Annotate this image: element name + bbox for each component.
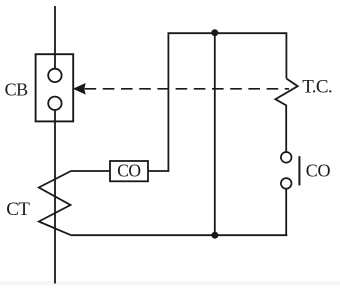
svg-text:CO: CO [117,161,140,181]
CO contact circle top [281,152,292,163]
wire top bus with corners [168,33,286,171]
arrowhead pointing at CB [73,83,86,95]
CB contact circle bottom [48,97,61,110]
wire contact to bottom bus [285,189,287,236]
CO contact circle bottom [281,178,292,189]
CB contact circle top [48,69,61,82]
scan artifact band [0,281,340,286]
dashed trip control line [85,88,289,90]
current transformer CT zigzag [39,171,110,235]
wire CO box to left-middle vertical [148,170,169,172]
svg-text:T.C.: T.C. [302,77,332,98]
trip coil T.C. zigzag [275,79,297,153]
circuit breaker CB box [36,54,74,121]
CO contact bar [298,156,300,185]
wire main left vertical bus upper [54,6,56,70]
relay CO box [110,161,148,181]
svg-text:CO: CO [306,161,331,181]
wire main left vertical bus lower [54,109,56,284]
junction dot bottom [211,232,218,239]
wire middle vertical [214,33,216,235]
junction dot top [211,29,218,36]
wire bottom bus [71,234,286,235]
svg-text:CB: CB [5,80,29,100]
svg-text:CT: CT [6,199,30,220]
